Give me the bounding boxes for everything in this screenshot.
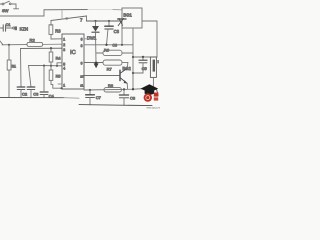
node junction C4 top <box>43 65 45 67</box>
svg-text:C7: C7 <box>96 95 102 100</box>
wire R2 to IC pin2 <box>43 43 62 45</box>
svg-text:9: 9 <box>81 61 83 65</box>
diode D node blob <box>94 62 99 69</box>
logo mortarboard <box>141 84 159 93</box>
svg-text:1: 1 <box>63 37 65 41</box>
resistor R5 <box>49 66 62 89</box>
svg-text:www.dgzj.com: www.dgzj.com <box>147 106 161 110</box>
wire BG1 collector out <box>142 21 157 57</box>
capacitor C3b <box>105 21 113 45</box>
ground rail left <box>0 97 79 100</box>
wire pin6 stub <box>84 38 90 40</box>
wire mic to R2 <box>2 44 27 46</box>
svg-text:8: 8 <box>81 44 83 48</box>
svg-text:SW: SW <box>2 8 9 13</box>
wire pin3 feedback <box>21 48 63 87</box>
resistor R6 <box>96 50 133 55</box>
wire pin11 bottom net <box>84 88 153 90</box>
svg-text:C3: C3 <box>33 92 39 97</box>
relay J coil <box>150 57 159 88</box>
svg-text:R3: R3 <box>55 28 61 33</box>
svg-text:R4: R4 <box>56 56 61 60</box>
svg-text:R2: R2 <box>30 38 36 43</box>
capacitor C7 <box>86 90 95 105</box>
svg-text:3: 3 <box>63 48 65 52</box>
svg-text:C3: C3 <box>114 29 120 34</box>
svg-text:DW1: DW1 <box>87 36 97 41</box>
label KZN <box>15 26 28 31</box>
node junction C3 top <box>108 20 110 22</box>
logo watermark <box>141 84 161 109</box>
wire pin9 to R7 <box>84 62 103 64</box>
node junction x133 y73 <box>132 72 134 74</box>
svg-text:R9: R9 <box>108 83 114 88</box>
transistor BG1 symbol <box>118 18 126 44</box>
node junction BG1 emitter <box>121 44 123 46</box>
node junction DW1 top <box>94 20 96 22</box>
wire pin4/5 bus <box>29 65 63 87</box>
resistor R4 <box>49 48 53 65</box>
resistor R7 <box>103 60 128 65</box>
svg-text:10: 10 <box>80 74 84 78</box>
wire rail step <box>43 10 45 16</box>
node junction C8 top <box>123 88 125 90</box>
node junction R1 top <box>8 44 10 46</box>
ground rail right <box>79 105 152 106</box>
svg-text:KZN: KZN <box>20 27 28 32</box>
wire top supply rail <box>44 8 122 10</box>
svg-text:2: 2 <box>63 43 65 47</box>
svg-text:4: 4 <box>63 66 65 70</box>
zener DW1 <box>92 21 99 63</box>
IC U1 box <box>62 34 84 89</box>
switch SW <box>0 1 19 9</box>
node junction R4 top <box>50 47 52 49</box>
wire pin5 stub <box>57 63 62 66</box>
logo red seal <box>144 93 152 101</box>
capacitor C3a <box>27 87 35 97</box>
svg-text:11: 11 <box>80 83 83 87</box>
svg-text:BG1: BG1 <box>123 12 132 17</box>
svg-text:C6: C6 <box>112 44 117 48</box>
resistor R1 (mic bias) <box>7 45 11 98</box>
wire left rail lower <box>0 15 44 17</box>
capacitor C1 <box>0 25 15 31</box>
node junction x133 y89 <box>132 88 134 90</box>
node junction x133 y57 <box>132 56 134 58</box>
svg-text:R5: R5 <box>56 75 61 79</box>
logo tassel <box>157 89 158 95</box>
capacitor C4 <box>40 66 48 98</box>
node junction C5 top <box>142 56 144 58</box>
transistor BG2 <box>84 63 128 89</box>
svg-text:1: 1 <box>63 83 65 87</box>
svg-text:R1: R1 <box>12 64 16 68</box>
svg-text:C8: C8 <box>130 95 136 100</box>
resistor R3 <box>49 10 87 39</box>
capacitor C8 <box>119 89 128 105</box>
wire pin7 drop <box>87 16 123 21</box>
transistor BG1 box <box>122 8 142 28</box>
node junction R4R5 <box>50 65 52 67</box>
wire y57 relay feed <box>133 56 157 58</box>
logo red text <box>154 93 159 97</box>
wire pin14 stub <box>58 83 62 85</box>
capacitor C5 <box>133 57 147 73</box>
svg-text:6: 6 <box>81 37 83 41</box>
svg-text:C1: C1 <box>6 23 11 27</box>
resistor R2 <box>27 42 43 46</box>
wire mic diagonal <box>0 41 3 45</box>
node junction pin5 stub <box>56 65 58 67</box>
resistor R9 <box>104 88 121 92</box>
capacitor C2 <box>17 87 25 97</box>
wire bus vertical right <box>132 28 134 89</box>
svg-text:IC: IC <box>70 50 76 56</box>
node junction IC bottom left <box>61 87 63 89</box>
svg-text:C2: C2 <box>22 92 28 97</box>
svg-text:C5: C5 <box>142 66 148 71</box>
node junction C3b bottom <box>105 44 107 46</box>
wire pin8 net <box>84 44 133 46</box>
svg-text:R7: R7 <box>107 67 113 72</box>
node junction C7 top <box>89 89 91 91</box>
tick mark 6 <box>66 17 68 19</box>
